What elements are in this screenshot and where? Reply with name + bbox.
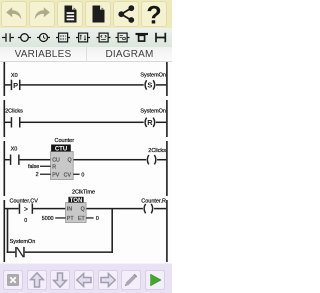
share button xyxy=(113,1,139,27)
wire rung4 xyxy=(5,208,166,210)
edit button xyxy=(121,270,141,290)
icon counter block xyxy=(76,33,90,42)
coil 2Clicks rung3 xyxy=(147,148,166,165)
icon branch xyxy=(136,34,149,41)
coil SystemOn (S) rung1 xyxy=(140,73,166,90)
svg-text:Counter.R: Counter.R xyxy=(141,198,166,204)
contact 2Clicks rung2 xyxy=(5,108,23,127)
svg-text:0: 0 xyxy=(96,216,99,222)
contact X0 rung3 xyxy=(10,146,20,165)
coil Counter.R rung4 xyxy=(141,198,166,213)
undo button xyxy=(1,1,27,27)
svg-text:false: false xyxy=(28,164,39,170)
value 0 from CV pin xyxy=(73,172,84,178)
right power rail xyxy=(166,62,168,262)
svg-text:X0: X0 xyxy=(11,146,18,152)
left power rail xyxy=(4,62,6,262)
svg-text:0: 0 xyxy=(24,218,27,224)
icon move block xyxy=(116,33,130,42)
svg-text:Counter.CV: Counter.CV xyxy=(10,199,39,205)
svg-text:TON: TON xyxy=(70,198,83,204)
top toolbar xyxy=(0,0,172,28)
svg-text:2: 2 xyxy=(36,172,39,178)
coil SystemOn (R) rung2 xyxy=(140,108,166,127)
svg-text:S: S xyxy=(147,81,152,90)
svg-text:R: R xyxy=(147,118,153,127)
new document button xyxy=(85,1,111,27)
svg-text:>: > xyxy=(24,207,28,214)
wire rung3 xyxy=(5,159,166,161)
svg-text:X0: X0 xyxy=(11,73,18,79)
counter block CTU xyxy=(51,138,75,180)
svg-text:0: 0 xyxy=(81,172,84,178)
value 2 to PV pin xyxy=(36,172,51,178)
wire rung2 xyxy=(5,122,166,124)
move down button xyxy=(50,270,70,290)
value false to R pin xyxy=(28,164,51,170)
svg-text:P: P xyxy=(13,81,18,90)
redo button xyxy=(29,1,55,27)
icon timer xyxy=(37,34,50,42)
help button xyxy=(141,1,167,27)
svg-text:2Clicks: 2Clicks xyxy=(148,148,166,154)
value 0 from ET pin xyxy=(86,216,99,222)
svg-text:2ClkTime: 2ClkTime xyxy=(72,190,95,196)
svg-text:SystemOn: SystemOn xyxy=(140,108,166,114)
svg-text:CV: CV xyxy=(64,172,72,178)
element toolbar xyxy=(0,28,172,47)
svg-text:Q: Q xyxy=(81,207,85,213)
svg-text:Q: Q xyxy=(67,158,71,164)
NC contact SystemOn on branch xyxy=(10,239,36,257)
delete button xyxy=(3,270,23,290)
value 5000 to PT pin xyxy=(42,216,66,222)
icon function block xyxy=(56,33,70,42)
branch up wire right xyxy=(111,209,113,253)
move left button xyxy=(74,270,94,290)
move right button xyxy=(98,270,118,290)
svg-text:IN: IN xyxy=(67,207,72,213)
svg-text:2Clicks: 2Clicks xyxy=(5,108,23,114)
branch down wire left xyxy=(7,208,9,253)
icon rung xyxy=(156,33,165,42)
open document button xyxy=(57,1,83,27)
icon coil xyxy=(18,34,31,42)
svg-text:CU: CU xyxy=(52,158,60,164)
svg-text:PT: PT xyxy=(67,216,75,222)
svg-text:ET: ET xyxy=(78,216,86,222)
svg-text:5000: 5000 xyxy=(42,216,54,222)
icon compare block xyxy=(97,33,111,42)
svg-text:CTU: CTU xyxy=(55,146,67,152)
icon contact xyxy=(2,33,14,42)
ladder diagram xyxy=(0,62,172,263)
svg-text:PV: PV xyxy=(52,172,60,178)
wire rung1 xyxy=(5,84,166,86)
contact X0 |P| rung1 xyxy=(11,73,21,90)
run button xyxy=(145,270,165,290)
svg-text:SystemOn: SystemOn xyxy=(10,239,36,245)
branch horizontal wire xyxy=(7,251,113,253)
compare contact Counter.CV > 0 xyxy=(10,199,39,224)
bottom toolbar xyxy=(0,263,172,293)
svg-text:R: R xyxy=(52,164,56,170)
tab bar xyxy=(0,47,172,62)
svg-text:?: ? xyxy=(146,2,161,26)
timer block TON xyxy=(66,190,95,223)
move up button xyxy=(27,270,47,290)
svg-text:SystemOn: SystemOn xyxy=(140,73,166,79)
svg-text:Counter: Counter xyxy=(55,138,75,144)
